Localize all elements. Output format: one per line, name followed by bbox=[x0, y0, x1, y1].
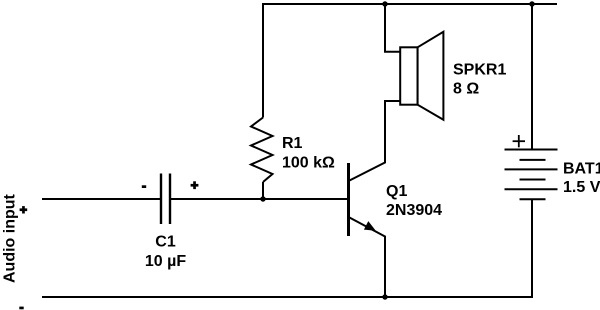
wire R1 bottom lead bbox=[262, 182, 264, 200]
svg-text:2N3904: 2N3904 bbox=[386, 202, 442, 219]
node junction emitter-ground bbox=[382, 294, 387, 299]
capacitor C1 bbox=[161, 174, 170, 225]
battery BAT1 bbox=[505, 150, 558, 200]
label audio input plus bbox=[20, 206, 28, 213]
svg-text:C1: C1 bbox=[155, 234, 176, 251]
transistor Q1 base bar bbox=[347, 163, 350, 236]
speaker SPKR1 bbox=[400, 32, 443, 120]
svg-text:BAT1: BAT1 bbox=[563, 160, 600, 177]
node junction top battery bbox=[529, 1, 534, 6]
svg-text:1.5 V: 1.5 V bbox=[563, 179, 600, 196]
label audio input minus bbox=[19, 307, 23, 310]
wire bottom rail and battery bottom lead bbox=[42, 199, 532, 297]
wire speaker branch top bbox=[385, 3, 400, 52]
svg-text:8 Ω: 8 Ω bbox=[453, 81, 479, 98]
svg-text:10 µF: 10 µF bbox=[145, 253, 186, 270]
wire top rail and R1 top lead bbox=[263, 4, 557, 118]
wire speaker bottom to Q1 collector bbox=[349, 101, 401, 181]
svg-text:Q1: Q1 bbox=[386, 183, 407, 200]
wire C1 to Q1 base bbox=[170, 198, 348, 200]
label C1 minus bbox=[142, 185, 146, 188]
resistor R1 bbox=[251, 118, 273, 183]
node junction top speaker bbox=[382, 1, 387, 6]
transistor Q1 emitter arrowhead bbox=[364, 221, 376, 231]
node junction R1-base bbox=[260, 196, 265, 201]
svg-text:R1: R1 bbox=[282, 135, 303, 152]
svg-text:SPKR1: SPKR1 bbox=[453, 62, 506, 79]
battery plus sign bbox=[513, 135, 525, 147]
wire Q1 emitter to ground rail bbox=[349, 217, 386, 297]
label C1 plus bbox=[191, 181, 199, 189]
svg-text:100 kΩ: 100 kΩ bbox=[282, 154, 335, 171]
wire battery top lead bbox=[531, 3, 533, 150]
wire audio input plus to C1 bbox=[42, 198, 161, 200]
svg-text:Audio input: Audio input bbox=[1, 193, 18, 283]
